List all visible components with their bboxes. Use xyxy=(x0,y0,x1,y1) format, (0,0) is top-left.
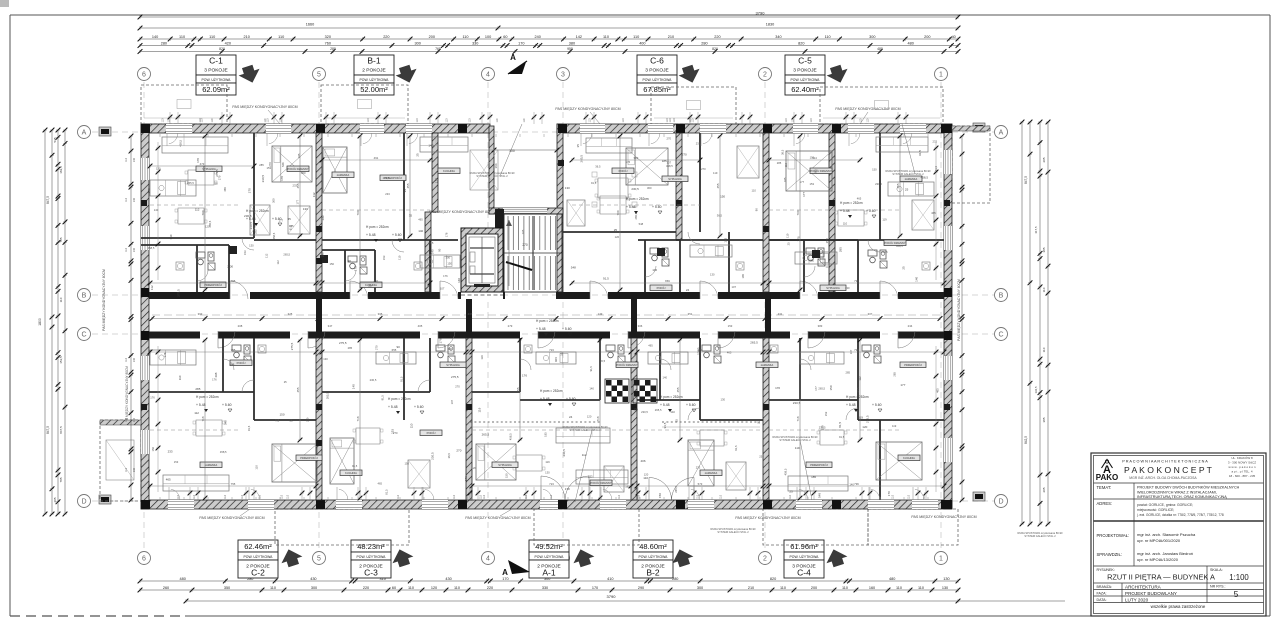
svg-text:91,5: 91,5 xyxy=(591,181,597,185)
svg-text:2: 2 xyxy=(763,556,767,563)
svg-text:110: 110 xyxy=(603,35,609,39)
svg-text:3 POKOJE: 3 POKOJE xyxy=(645,68,668,74)
svg-text:300: 300 xyxy=(697,586,703,590)
svg-text:SYSTEM GALECO STAL 2: SYSTEM GALECO STAL 2 xyxy=(892,172,924,176)
svg-text:140: 140 xyxy=(431,249,435,254)
svg-text:265,5: 265,5 xyxy=(580,155,584,163)
svg-text:TEMAT:: TEMAT: xyxy=(1097,485,1112,490)
svg-text:140: 140 xyxy=(352,384,356,389)
svg-text:170: 170 xyxy=(280,176,284,181)
svg-text:+ 5.60: + 5.60 xyxy=(872,403,882,407)
svg-text:233: 233 xyxy=(168,450,173,454)
svg-text:+ 5.60: + 5.60 xyxy=(392,233,402,237)
svg-text:480: 480 xyxy=(180,577,186,581)
svg-text:36,5: 36,5 xyxy=(428,241,434,245)
svg-text:176: 176 xyxy=(796,236,800,241)
svg-text:81,5: 81,5 xyxy=(288,224,292,230)
svg-text:285: 285 xyxy=(259,163,264,167)
svg-text:723: 723 xyxy=(549,348,554,352)
svg-text:465: 465 xyxy=(418,217,423,221)
svg-text:119: 119 xyxy=(480,355,484,360)
svg-text:110: 110 xyxy=(224,494,227,498)
svg-text:3790: 3790 xyxy=(756,11,766,16)
svg-text:PROJEKT BUDOWY DWÓCH BUDYNKÓW: PROJEKT BUDOWY DWÓCH BUDYNKÓW MIESZKALNY… xyxy=(1137,485,1240,490)
svg-text:718: 718 xyxy=(356,416,360,421)
svg-text:119: 119 xyxy=(795,446,800,450)
svg-text:A: A xyxy=(999,130,1004,137)
svg-text:PAS MIĘDZY KONDYGNACYJNY 80CM: PAS MIĘDZY KONDYGNACYJNY 80CM xyxy=(465,516,530,520)
svg-text:110: 110 xyxy=(200,118,203,122)
svg-text:820: 820 xyxy=(798,41,804,45)
svg-text:220: 220 xyxy=(487,586,493,590)
svg-text:140: 140 xyxy=(662,376,667,380)
svg-text:185: 185 xyxy=(741,273,745,278)
svg-text:1: 1 xyxy=(939,556,943,563)
svg-text:796: 796 xyxy=(854,279,859,283)
svg-text:upr. nr MPOIA/001/2020: upr. nr MPOIA/001/2020 xyxy=(1137,538,1181,543)
svg-text:458,5: 458,5 xyxy=(220,450,227,454)
svg-text:149: 149 xyxy=(598,312,603,316)
svg-text:290: 290 xyxy=(638,586,644,590)
svg-text:185: 185 xyxy=(625,485,630,489)
svg-text:SYSTEM GALECO STAL 2: SYSTEM GALECO STAL 2 xyxy=(1024,534,1056,538)
svg-text:265,5: 265,5 xyxy=(818,386,825,390)
svg-text:91,5: 91,5 xyxy=(589,366,593,372)
svg-text:BRANŻA:: BRANŻA: xyxy=(1097,584,1113,589)
svg-text:110: 110 xyxy=(780,586,786,590)
svg-text:380: 380 xyxy=(569,41,575,45)
svg-text:C-2: C-2 xyxy=(251,568,265,578)
svg-text:796: 796 xyxy=(854,482,859,486)
svg-text:130: 130 xyxy=(943,577,949,581)
svg-text:120: 120 xyxy=(587,415,592,419)
svg-text:535: 535 xyxy=(53,137,57,142)
svg-text:182,5: 182,5 xyxy=(59,166,63,174)
svg-text:260: 260 xyxy=(163,586,169,590)
svg-text:PAS MIĘDZY KONDYGNACYJNY 80CM: PAS MIĘDZY KONDYGNACYJNY 80CM xyxy=(199,516,264,520)
svg-text:PAS MIĘDZY KONDYGNACYJNY 80CM: PAS MIĘDZY KONDYGNACYJNY 80CM xyxy=(911,515,976,519)
svg-text:6: 6 xyxy=(142,556,146,563)
svg-text:177: 177 xyxy=(802,192,806,197)
svg-text:847,5: 847,5 xyxy=(1024,176,1028,184)
svg-text:PROJEKTOWAŁ:: PROJEKTOWAŁ: xyxy=(1097,533,1130,538)
svg-text:j. ewi. GORLICE, działka nr: 7: j. ewi. GORLICE, działka nr: 778/2, 778/… xyxy=(1136,513,1224,517)
svg-text:170: 170 xyxy=(592,586,598,590)
svg-text:176: 176 xyxy=(445,232,449,237)
svg-text:ŁAZIENKA: ŁAZIENKA xyxy=(205,463,218,467)
svg-text:465: 465 xyxy=(727,351,732,355)
svg-text:110: 110 xyxy=(416,118,419,122)
svg-text:176: 176 xyxy=(439,338,443,343)
svg-text:130: 130 xyxy=(565,186,570,190)
svg-text:SYPIALNIA: SYPIALNIA xyxy=(498,463,512,467)
svg-text:H pom = 252cm: H pom = 252cm xyxy=(626,197,649,201)
svg-text:785: 785 xyxy=(59,477,63,482)
svg-text:205: 205 xyxy=(1042,487,1046,492)
svg-text:177: 177 xyxy=(296,200,300,205)
svg-text:177: 177 xyxy=(435,178,439,183)
svg-text:150: 150 xyxy=(720,195,725,199)
svg-text:110: 110 xyxy=(367,118,370,122)
svg-text:48.23m²: 48.23m² xyxy=(357,542,385,551)
svg-text:60: 60 xyxy=(503,35,507,39)
svg-text:107: 107 xyxy=(732,285,737,289)
svg-text:265,5: 265,5 xyxy=(283,253,290,257)
svg-text:110: 110 xyxy=(784,162,788,167)
svg-text:820: 820 xyxy=(712,47,718,51)
svg-text:110: 110 xyxy=(786,233,790,238)
svg-text:208: 208 xyxy=(238,324,243,328)
svg-text:91,5: 91,5 xyxy=(352,464,358,468)
svg-text:153: 153 xyxy=(174,460,179,464)
svg-text:PAS MIĘDZY KONDYGNACYJNY 80CM: PAS MIĘDZY KONDYGNACYJNY 80CM xyxy=(735,516,800,520)
svg-text:C: C xyxy=(998,332,1003,339)
svg-text:140: 140 xyxy=(670,410,675,414)
svg-text:110: 110 xyxy=(588,118,591,122)
svg-text:176: 176 xyxy=(626,160,631,164)
svg-text:132,5: 132,5 xyxy=(1034,386,1038,393)
svg-text:347: 347 xyxy=(328,324,333,328)
svg-text:140: 140 xyxy=(915,276,919,281)
svg-text:233: 233 xyxy=(588,475,593,479)
svg-text:KUCHNIA: KUCHNIA xyxy=(443,169,455,173)
svg-text:3 POKOJE: 3 POKOJE xyxy=(793,68,816,74)
svg-text:177: 177 xyxy=(279,219,284,223)
svg-text:5: 5 xyxy=(317,72,321,79)
svg-text:140: 140 xyxy=(428,144,433,148)
svg-text:91,5: 91,5 xyxy=(839,435,845,439)
svg-text:847,5: 847,5 xyxy=(46,426,50,434)
svg-text:130: 130 xyxy=(249,244,254,248)
svg-text:120: 120 xyxy=(431,586,437,590)
svg-text:112: 112 xyxy=(858,376,862,381)
svg-text:H pom = 252cm: H pom = 252cm xyxy=(846,395,869,399)
svg-text:170: 170 xyxy=(775,386,780,390)
svg-text:35: 35 xyxy=(576,144,580,148)
svg-text:205: 205 xyxy=(53,497,57,502)
svg-text:POW. UŻYTKOWA: POW. UŻYTKOWA xyxy=(639,554,669,559)
svg-text:455: 455 xyxy=(896,183,900,188)
svg-text:a p t . p l TEL. 4: a p t . p l TEL. 4 xyxy=(1231,470,1252,474)
svg-text:498: 498 xyxy=(202,166,206,171)
svg-text:+ 5.60: + 5.60 xyxy=(566,397,576,401)
svg-text:B-1: B-1 xyxy=(367,56,381,66)
svg-text:230,5: 230,5 xyxy=(430,452,434,460)
svg-text:110: 110 xyxy=(1042,347,1046,352)
svg-text:24: 24 xyxy=(686,288,690,292)
svg-text:700: 700 xyxy=(356,210,360,215)
svg-text:280: 280 xyxy=(701,41,707,45)
svg-text:165: 165 xyxy=(521,229,525,234)
svg-text:112: 112 xyxy=(826,265,831,269)
svg-text:PROJEKT BUDOWLANY: PROJEKT BUDOWLANY xyxy=(1125,591,1177,596)
svg-text:+ 5.48: + 5.48 xyxy=(840,209,850,213)
svg-text:385: 385 xyxy=(1042,247,1046,252)
svg-text:270: 270 xyxy=(455,384,460,388)
svg-text:POW. UŻYTKOWA: POW. UŻYTKOWA xyxy=(357,554,387,559)
svg-text:PAS MIĘDZY KONDYGNACYJNY 80CM: PAS MIĘDZY KONDYGNACYJNY 80CM xyxy=(555,107,620,111)
svg-text:153: 153 xyxy=(824,411,828,416)
svg-text:C-5: C-5 xyxy=(798,56,812,66)
svg-text:760: 760 xyxy=(325,41,331,45)
svg-text:119: 119 xyxy=(882,218,887,222)
svg-text:4: 4 xyxy=(486,556,490,563)
svg-text:PAKO: PAKO xyxy=(1096,473,1119,482)
svg-text:847,5: 847,5 xyxy=(46,196,50,204)
svg-text:110: 110 xyxy=(720,494,723,498)
svg-text:270: 270 xyxy=(682,153,687,157)
svg-text:119: 119 xyxy=(545,460,550,464)
svg-text:+ 5.48: + 5.48 xyxy=(846,403,856,407)
svg-text:4: 4 xyxy=(486,72,490,79)
svg-text:480: 480 xyxy=(889,577,895,581)
svg-text:465: 465 xyxy=(223,187,227,192)
svg-text:176: 176 xyxy=(163,352,167,357)
svg-text:90: 90 xyxy=(397,345,401,349)
svg-text:112: 112 xyxy=(194,411,199,415)
svg-text:150: 150 xyxy=(829,385,833,390)
svg-text:265,5: 265,5 xyxy=(750,340,758,344)
svg-text:49.52m²: 49.52m² xyxy=(535,542,563,551)
svg-text:280: 280 xyxy=(161,41,167,45)
svg-text:110: 110 xyxy=(789,494,792,498)
svg-text:130: 130 xyxy=(545,470,550,474)
svg-text:110: 110 xyxy=(496,118,499,122)
svg-text:455: 455 xyxy=(296,387,300,392)
svg-text:548: 548 xyxy=(818,493,822,498)
svg-text:140: 140 xyxy=(457,278,461,283)
svg-text:2,00: 2,00 xyxy=(227,265,233,269)
svg-text:DATA:: DATA: xyxy=(1097,598,1107,602)
svg-text:110: 110 xyxy=(669,118,672,122)
svg-text:25: 25 xyxy=(759,455,762,459)
svg-text:393: 393 xyxy=(198,312,203,316)
svg-text:+ 5.60: + 5.60 xyxy=(652,205,662,209)
svg-text:285: 285 xyxy=(253,229,257,234)
svg-text:62.09m²: 62.09m² xyxy=(202,85,230,94)
svg-text:112: 112 xyxy=(312,192,316,197)
svg-text:755: 755 xyxy=(231,482,236,486)
svg-text:458,5: 458,5 xyxy=(509,433,513,440)
svg-text:110: 110 xyxy=(692,118,695,122)
svg-text:H pom = 252cm: H pom = 252cm xyxy=(246,209,269,213)
svg-text:upr. nr MPOIA/13/2020: upr. nr MPOIA/13/2020 xyxy=(1137,557,1179,562)
svg-text:119: 119 xyxy=(713,171,718,175)
svg-text:233: 233 xyxy=(696,465,701,469)
svg-text:B: B xyxy=(999,293,1004,300)
svg-text:SYPIALNIA: SYPIALNIA xyxy=(826,286,840,290)
svg-text:455: 455 xyxy=(406,183,410,188)
svg-text:430: 430 xyxy=(310,577,316,581)
svg-text:PAS MIĘDZY KONDYGNACYJNY 80CM: PAS MIĘDZY KONDYGNACYJNY 80CM xyxy=(835,107,900,111)
svg-text:285: 285 xyxy=(893,372,897,377)
svg-text:955: 955 xyxy=(567,47,573,51)
svg-text:233: 233 xyxy=(696,142,701,146)
svg-text:90: 90 xyxy=(755,208,759,211)
svg-text:48.60m²: 48.60m² xyxy=(639,542,667,551)
svg-text:110: 110 xyxy=(125,197,128,201)
svg-text:25: 25 xyxy=(614,228,618,232)
svg-text:700: 700 xyxy=(796,210,800,215)
svg-text:120: 120 xyxy=(634,407,639,411)
svg-text:KUCHNIA: KUCHNIA xyxy=(345,471,357,475)
svg-text:NR RYS.:: NR RYS.: xyxy=(1210,585,1226,589)
svg-text:+ 5.60: + 5.60 xyxy=(686,403,696,407)
svg-text:265,5: 265,5 xyxy=(674,486,678,493)
svg-text:120: 120 xyxy=(205,225,210,229)
svg-text:230: 230 xyxy=(133,197,136,202)
svg-text:130: 130 xyxy=(720,398,725,402)
svg-text:406: 406 xyxy=(554,357,558,362)
svg-text:110: 110 xyxy=(211,118,214,122)
svg-text:458,5: 458,5 xyxy=(148,246,155,250)
svg-text:718: 718 xyxy=(596,416,600,421)
svg-text:+ 5.60: + 5.60 xyxy=(866,209,876,213)
svg-text:110: 110 xyxy=(462,35,468,39)
svg-text:185: 185 xyxy=(783,177,787,182)
svg-text:200: 200 xyxy=(429,35,435,39)
svg-text:6: 6 xyxy=(142,72,146,79)
svg-text:110: 110 xyxy=(281,494,284,498)
svg-text:+ 5.48: + 5.48 xyxy=(388,405,398,409)
svg-text:796: 796 xyxy=(854,348,859,352)
svg-text:455: 455 xyxy=(856,387,860,392)
svg-text:485: 485 xyxy=(877,47,883,51)
svg-text:430: 430 xyxy=(445,577,451,581)
svg-text:91,5: 91,5 xyxy=(663,422,667,428)
svg-text:1660: 1660 xyxy=(306,23,314,27)
svg-text:265,5: 265,5 xyxy=(482,432,490,436)
svg-text:176: 176 xyxy=(212,378,217,382)
svg-text:279: 279 xyxy=(508,324,513,328)
svg-text:110: 110 xyxy=(891,494,894,498)
svg-text:655: 655 xyxy=(392,348,397,352)
svg-text:765: 765 xyxy=(435,47,441,51)
svg-text:265,5: 265,5 xyxy=(187,181,194,185)
svg-text:170: 170 xyxy=(147,188,151,193)
svg-text:C-3: C-3 xyxy=(364,568,378,578)
svg-text:110: 110 xyxy=(125,157,128,161)
svg-text:270: 270 xyxy=(522,243,528,247)
svg-text:112: 112 xyxy=(195,208,200,212)
svg-text:PAS MIĘDZY KONDYGNACYJNY 80CM: PAS MIĘDZY KONDYGNACYJNY 80CM xyxy=(102,269,106,331)
svg-text:300: 300 xyxy=(448,347,453,351)
svg-text:177: 177 xyxy=(814,386,818,391)
svg-text:110: 110 xyxy=(179,35,185,39)
svg-text:305: 305 xyxy=(378,312,383,316)
svg-text:230,5: 230,5 xyxy=(793,401,801,405)
svg-text:285: 285 xyxy=(195,387,200,391)
svg-text:POW. UŻYTKOWA: POW. UŻYTKOWA xyxy=(791,77,821,82)
svg-text:107: 107 xyxy=(667,160,672,164)
svg-text:458,5: 458,5 xyxy=(272,232,276,239)
svg-text:210: 210 xyxy=(244,35,250,39)
svg-text:265,5: 265,5 xyxy=(326,392,330,399)
svg-text:265,5: 265,5 xyxy=(634,212,638,219)
svg-text:+ 5.60: + 5.60 xyxy=(414,405,424,409)
svg-text:110: 110 xyxy=(398,255,402,260)
svg-text:A-1: A-1 xyxy=(542,568,556,578)
svg-text:164: 164 xyxy=(494,163,498,168)
svg-text:160: 160 xyxy=(869,586,875,590)
svg-text:RZUT II PIĘTRA — BUDYNEK A: RZUT II PIĘTRA — BUDYNEK A xyxy=(1107,573,1215,582)
svg-text:110: 110 xyxy=(825,35,831,39)
svg-text:431: 431 xyxy=(778,312,783,316)
svg-text:153: 153 xyxy=(382,255,386,260)
svg-text:270: 270 xyxy=(217,175,221,180)
svg-text:ŁAZIENKA: ŁAZIENKA xyxy=(905,177,918,181)
svg-text:265,5: 265,5 xyxy=(655,408,662,412)
svg-text:H pom = 252cm: H pom = 252cm xyxy=(366,225,389,229)
svg-text:SPRAWDZIŁ:: SPRAWDZIŁ: xyxy=(1097,552,1122,557)
svg-text:351: 351 xyxy=(688,312,693,316)
svg-text:2: 2 xyxy=(763,72,767,79)
svg-text:WIELORODZINNYCH WRAZ Z INSTALA: WIELORODZINNYCH WRAZ Z INSTALACJAMI, xyxy=(1137,491,1217,495)
svg-text:498: 498 xyxy=(214,372,218,377)
svg-text:110: 110 xyxy=(785,118,788,122)
svg-text:548: 548 xyxy=(639,222,644,226)
svg-text:820: 820 xyxy=(770,577,776,581)
svg-text:465: 465 xyxy=(166,477,171,481)
svg-text:91,5: 91,5 xyxy=(603,277,609,281)
svg-text:POW. UŻYTKOWA: POW. UŻYTKOWA xyxy=(360,77,390,82)
svg-text:110: 110 xyxy=(125,357,128,361)
svg-text:110: 110 xyxy=(908,494,911,498)
svg-text:410: 410 xyxy=(607,577,613,581)
svg-text:110: 110 xyxy=(408,586,414,590)
svg-text:91,5: 91,5 xyxy=(734,445,738,451)
svg-text:330: 330 xyxy=(472,41,478,45)
svg-text:ARCHITEKTURA: ARCHITEKTURA xyxy=(1125,585,1162,590)
svg-text:285: 285 xyxy=(845,370,850,374)
svg-text:110: 110 xyxy=(523,118,526,122)
svg-text:869: 869 xyxy=(665,279,670,283)
svg-text:270: 270 xyxy=(247,188,251,193)
svg-text:437: 437 xyxy=(468,312,473,316)
svg-text:491: 491 xyxy=(374,279,379,283)
svg-text:SKALA:: SKALA: xyxy=(1210,568,1223,572)
svg-text:1:100: 1:100 xyxy=(1229,573,1249,582)
svg-text:INFRASTRUKTURĄ TECH. ORAZ KOMU: INFRASTRUKTURĄ TECH. ORAZ KOMUNIKACYJNĄ xyxy=(1137,495,1227,499)
svg-text:275,5: 275,5 xyxy=(866,415,870,423)
svg-text:110: 110 xyxy=(752,188,757,192)
svg-text:150: 150 xyxy=(279,412,284,416)
svg-text:110: 110 xyxy=(59,297,63,302)
svg-text:285: 285 xyxy=(348,346,353,350)
svg-text:60: 60 xyxy=(392,586,396,590)
svg-text:306: 306 xyxy=(638,324,643,328)
svg-text:307: 307 xyxy=(868,312,873,316)
svg-text:153: 153 xyxy=(243,250,247,255)
svg-text:119: 119 xyxy=(858,415,863,419)
svg-text:91,5: 91,5 xyxy=(247,425,251,431)
svg-text:110: 110 xyxy=(810,118,813,122)
svg-text:67.85m²: 67.85m² xyxy=(643,85,671,94)
svg-text:847,5: 847,5 xyxy=(59,426,63,434)
svg-text:420: 420 xyxy=(225,41,231,45)
svg-text:210: 210 xyxy=(668,35,674,39)
svg-text:5: 5 xyxy=(1234,589,1239,599)
svg-text:100: 100 xyxy=(485,35,491,39)
svg-text:548: 548 xyxy=(224,420,228,425)
svg-text:230: 230 xyxy=(133,157,136,162)
svg-text:52.00m²: 52.00m² xyxy=(360,85,388,94)
svg-text:491: 491 xyxy=(374,156,379,160)
svg-text:90: 90 xyxy=(348,259,352,263)
svg-text:176: 176 xyxy=(150,396,155,400)
svg-text:2 POKOJE: 2 POKOJE xyxy=(362,68,385,74)
svg-text:1: 1 xyxy=(939,72,943,79)
